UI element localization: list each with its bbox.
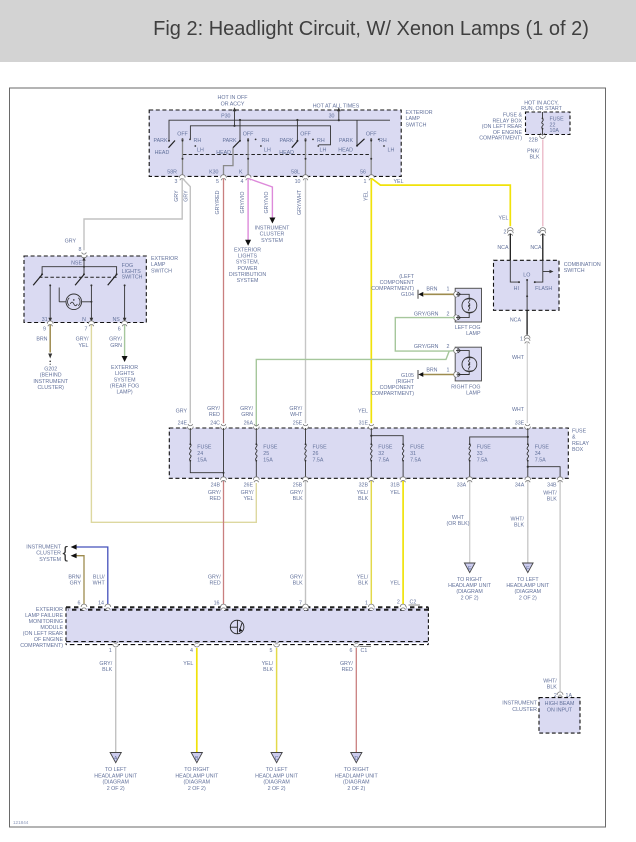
wire PNK/BLK fuse22 to combination switch pin 4 <box>527 140 543 227</box>
svg-text:9: 9 <box>43 327 46 333</box>
right fog lamp bulb <box>456 348 477 377</box>
svg-text:31: 31 <box>42 317 48 323</box>
svg-text:7.5A: 7.5A <box>313 458 324 464</box>
instrument cluster system arrows left <box>26 544 68 563</box>
svg-text:LAMP: LAMP <box>466 331 481 337</box>
svg-text:BLK: BLK <box>547 497 557 503</box>
svg-text:LIGHTS: LIGHTS <box>115 371 135 377</box>
svg-text:SYSTEM: SYSTEM <box>237 278 259 284</box>
svg-text:NCA: NCA <box>530 245 542 251</box>
module name text <box>20 607 63 649</box>
svg-text:HI: HI <box>514 286 519 292</box>
module top pin 1 <box>365 601 374 611</box>
svg-text:HOT IN OFF: HOT IN OFF <box>218 95 249 101</box>
svg-text:(DIAGRAM: (DIAGRAM <box>515 589 542 595</box>
terminal 31B <box>390 477 406 489</box>
svg-text:2 OF 2): 2 OF 2) <box>268 786 286 792</box>
svg-text:HEADLAMP UNIT: HEADLAMP UNIT <box>448 583 492 589</box>
svg-text:RH: RH <box>317 138 325 144</box>
svg-text:PARK: PARK <box>222 138 236 144</box>
svg-text:26: 26 <box>313 451 319 457</box>
ground G104 left component compartment <box>371 274 423 299</box>
wire WHT/BLK 34A to triangle F <box>510 481 527 563</box>
svg-text:RH: RH <box>379 138 387 144</box>
svg-text:24C: 24C <box>210 421 220 427</box>
svg-text:7.5A: 7.5A <box>535 458 546 464</box>
svg-text:GRY/VIO: GRY/VIO <box>264 192 270 214</box>
svg-text:N: N <box>82 317 86 323</box>
svg-text:15A: 15A <box>197 458 207 464</box>
svg-text:WHT/: WHT/ <box>510 517 524 523</box>
svg-text:LH: LH <box>197 147 204 153</box>
svg-text:TO LEFT: TO LEFT <box>517 577 539 583</box>
svg-text:34B: 34B <box>547 483 557 489</box>
svg-text:BRN: BRN <box>426 368 437 374</box>
fuse F33 7.5A feed branch <box>469 436 529 479</box>
svg-text:25B: 25B <box>293 483 303 489</box>
terminal 24B <box>211 477 227 489</box>
svg-text:GRY/: GRY/ <box>208 575 221 581</box>
svg-text:BLK: BLK <box>293 496 303 502</box>
svg-text:SWITCH: SWITCH <box>122 275 143 281</box>
svg-text:YEL: YEL <box>243 496 253 502</box>
svg-text:TO LEFT: TO LEFT <box>266 767 288 773</box>
svg-text:1: 1 <box>365 601 368 607</box>
ground G202 <box>33 354 68 392</box>
svg-text:16: 16 <box>214 601 220 607</box>
wire YEL/BLK module to triangle C <box>262 648 277 752</box>
svg-text:PARK: PARK <box>339 138 353 144</box>
svg-text:&: & <box>572 435 576 441</box>
connector triangle F <box>523 563 534 573</box>
wire YEL 31B to module pin2 <box>390 481 403 605</box>
svg-text:1: 1 <box>364 179 367 185</box>
svg-text:HEAD: HEAD <box>216 150 231 156</box>
combination switch box <box>494 260 560 310</box>
mechanical link dashed <box>183 154 370 156</box>
svg-text:(BEHIND: (BEHIND <box>40 373 62 379</box>
svg-text:RED: RED <box>342 667 353 673</box>
svg-text:SWITCH: SWITCH <box>564 268 585 274</box>
terminal 26E <box>244 477 260 489</box>
svg-text:{: { <box>63 544 69 562</box>
left fog lamp pin 2 connector <box>414 312 459 321</box>
svg-text:NCA: NCA <box>497 245 509 251</box>
svg-text:CLUSTER): CLUSTER) <box>37 385 64 391</box>
svg-text:4: 4 <box>190 648 193 654</box>
svg-text:PARK: PARK <box>153 138 167 144</box>
svg-text:RH: RH <box>262 138 270 144</box>
svg-text:GRY/: GRY/ <box>99 661 112 667</box>
connector pin 4 combination switch <box>537 228 546 237</box>
wire NCA below combination switch <box>510 310 527 335</box>
svg-text:GRY/: GRY/ <box>290 575 303 581</box>
wire GRY/VIO K to instrument cluster system <box>249 179 273 220</box>
label instrument cluster <box>502 701 537 713</box>
svg-text:3: 3 <box>175 179 178 185</box>
wire YEL/BLK 32B to module pin1 <box>357 481 372 605</box>
svg-text:33A: 33A <box>457 483 467 489</box>
svg-text:GRY/: GRY/ <box>340 661 353 667</box>
svg-text:5: 5 <box>270 648 273 654</box>
svg-text:OFF: OFF <box>243 131 254 137</box>
svg-text:INSTRUMENT: INSTRUMENT <box>26 545 61 551</box>
svg-text:YEL: YEL <box>363 191 369 201</box>
svg-text:7.5A: 7.5A <box>477 458 488 464</box>
svg-text:OR ACCY: OR ACCY <box>221 101 245 107</box>
svg-text:RELAY: RELAY <box>572 441 589 447</box>
svg-text:24: 24 <box>197 451 203 457</box>
svg-text:6: 6 <box>118 327 121 333</box>
svg-text:OFF: OFF <box>300 131 311 137</box>
fog lights switch box (exterior lamp switch) <box>24 256 146 323</box>
svg-text:SYSTEM: SYSTEM <box>39 557 61 563</box>
wire GRY/GRN net to fuse 26A <box>256 318 455 481</box>
svg-text:GRY/VIO: GRY/VIO <box>240 192 246 214</box>
svg-text:7.5A: 7.5A <box>410 458 421 464</box>
svg-text:GRY: GRY <box>65 239 77 245</box>
fog switch levers <box>33 275 116 286</box>
wire bus1 drop to PARK3 <box>296 119 298 141</box>
module top pin 6 <box>78 601 87 611</box>
svg-text:YEL: YEL <box>394 179 404 185</box>
svg-text:YEL: YEL <box>78 343 88 349</box>
svg-text:GRY/GRN: GRY/GRN <box>414 344 439 350</box>
svg-text:BLU/: BLU/ <box>93 575 105 581</box>
svg-text:EXTERIOR: EXTERIOR <box>151 256 178 262</box>
svg-text:(DIAGRAM: (DIAGRAM <box>102 780 129 786</box>
svg-text:33E: 33E <box>515 421 525 427</box>
svg-text:6: 6 <box>78 601 81 607</box>
svg-text:GRY/: GRY/ <box>240 406 253 412</box>
module top pin 16 <box>214 601 227 611</box>
svg-text:GRY/: GRY/ <box>207 406 220 412</box>
svg-text:RUN, OR START: RUN, OR START <box>521 106 562 112</box>
svg-text:RED: RED <box>209 412 220 418</box>
svg-text:HEADLAMP UNIT: HEADLAMP UNIT <box>506 583 550 589</box>
svg-text:GRY/: GRY/ <box>76 337 89 343</box>
svg-text:LH: LH <box>388 147 395 153</box>
svg-text:B: B <box>195 756 199 762</box>
terminal K pin 4 <box>239 170 251 186</box>
svg-text:HOT AT ALL TIMES: HOT AT ALL TIMES <box>313 104 360 110</box>
wire bus1 drop to HEAD4 <box>356 120 358 146</box>
svg-text:LH: LH <box>264 147 271 153</box>
module bottom pin 4 <box>190 642 200 655</box>
terminal NSE pin 8 <box>65 239 87 267</box>
terminal 24C <box>210 421 226 430</box>
fuse F31 7.5A feed branch <box>370 435 424 479</box>
svg-text:FUSE: FUSE <box>378 445 393 451</box>
svg-text:G202: G202 <box>44 367 57 373</box>
wire YEL 56 branch to combination switch <box>372 179 511 227</box>
svg-text:1: 1 <box>520 337 523 343</box>
high beam on input box <box>539 698 580 734</box>
svg-text:FUSE: FUSE <box>410 445 425 451</box>
svg-text:WHT: WHT <box>512 355 525 361</box>
svg-text:31E: 31E <box>359 421 369 427</box>
left fog lamp bulb <box>456 292 477 320</box>
terminal 25B <box>293 477 309 489</box>
terminal N pin 7 <box>82 317 94 332</box>
svg-text:NCA: NCA <box>510 318 522 324</box>
svg-text:YEL: YEL <box>498 216 508 222</box>
illumination lamp in fog switch <box>59 288 92 310</box>
svg-text:CLUSTER: CLUSTER <box>260 232 285 238</box>
wire GRY pin3 to fog switch NSE <box>84 179 182 251</box>
right fog lamp pin 1 connector <box>426 368 459 378</box>
svg-text:GRY/: GRY/ <box>109 337 122 343</box>
svg-text:10: 10 <box>295 179 301 185</box>
svg-text:26E: 26E <box>244 483 254 489</box>
fuse and relay box main <box>169 428 568 478</box>
svg-text:K30: K30 <box>209 170 218 176</box>
svg-text:(DIAGRAM: (DIAGRAM <box>184 780 211 786</box>
svg-text:1: 1 <box>447 287 450 293</box>
svg-text:GRN: GRN <box>110 343 122 349</box>
wire K30 pole jog <box>224 148 234 177</box>
svg-text:FUSE: FUSE <box>572 429 587 435</box>
svg-text:LAMP: LAMP <box>151 262 166 268</box>
svg-text:INSTRUMENT: INSTRUMENT <box>502 701 537 707</box>
right fog lamp box <box>455 347 481 381</box>
svg-text:Fig 2: Headlight Circuit, W/ X: Fig 2: Headlight Circuit, W/ Xenon Lamps… <box>153 18 589 40</box>
svg-text:2 OF 2): 2 OF 2) <box>107 786 125 792</box>
exterior lamp failure monitoring module box <box>66 608 428 643</box>
svg-text:YEL/: YEL/ <box>357 575 369 581</box>
svg-text:8: 8 <box>79 247 82 253</box>
wire labels above fuse box <box>176 406 368 418</box>
svg-text:58L: 58L <box>291 170 300 176</box>
svg-text:2 OF 2): 2 OF 2) <box>347 786 365 792</box>
svg-text:TO RIGHT: TO RIGHT <box>184 767 210 773</box>
wire fog switch feed bus <box>42 267 117 274</box>
svg-text:GRY: GRY <box>174 190 180 202</box>
svg-text:6: 6 <box>350 648 353 654</box>
svg-text:2: 2 <box>504 230 507 236</box>
module top pin 2 connector C2 <box>397 600 420 611</box>
svg-text:HEAD: HEAD <box>155 150 170 156</box>
wire BRN to left fog lamp pin1 <box>423 287 454 295</box>
svg-text:OFF: OFF <box>177 131 188 137</box>
svg-text:BLK: BLK <box>263 667 273 673</box>
svg-text:HEADLAMP UNIT: HEADLAMP UNIT <box>255 773 299 779</box>
fuse F25 15A <box>255 428 277 478</box>
terminal NS pin 6 <box>112 317 127 332</box>
terminal 32B <box>359 477 375 489</box>
module bottom pin 5 <box>270 642 280 655</box>
svg-text:PARK: PARK <box>279 138 293 144</box>
svg-text:7: 7 <box>85 327 88 333</box>
svg-text:121844: 121844 <box>13 820 29 825</box>
svg-text:GRY: GRY <box>184 190 190 202</box>
svg-text:1: 1 <box>447 368 450 374</box>
node hot in accy run or start <box>521 101 562 112</box>
svg-text:BLK: BLK <box>529 155 539 161</box>
svg-text:EXTERIOR: EXTERIOR <box>111 365 138 371</box>
svg-text:G104: G104 <box>401 292 414 298</box>
svg-text:WHT/: WHT/ <box>543 491 557 497</box>
svg-text:CLUSTER: CLUSTER <box>512 707 537 713</box>
exterior lamp switch S1 box <box>149 110 401 176</box>
svg-text:INSTRUMENT: INSTRUMENT <box>255 226 290 232</box>
terminal 33E <box>515 421 531 430</box>
node 30 hot at all times <box>313 104 360 122</box>
svg-text:2: 2 <box>397 600 400 606</box>
fog switch mechanical dashed link <box>39 276 118 278</box>
svg-text:HEAD: HEAD <box>279 150 294 156</box>
svg-text:EXTERIOR: EXTERIOR <box>406 110 433 116</box>
svg-text:56: 56 <box>360 170 366 176</box>
terminal K30 pin 5 <box>209 170 226 186</box>
wire GRY/WHT 58L to fuse 25E <box>305 179 307 424</box>
svg-text:C: C <box>275 756 279 762</box>
svg-text:WHT: WHT <box>93 581 106 587</box>
svg-text:5: 5 <box>216 179 219 185</box>
svg-text:(DIAGRAM: (DIAGRAM <box>456 589 483 595</box>
svg-text:OFF: OFF <box>366 131 377 137</box>
svg-text:(DIAGRAM: (DIAGRAM <box>263 780 290 786</box>
svg-text:GRY/: GRY/ <box>208 490 221 496</box>
svg-text:BLK: BLK <box>102 667 112 673</box>
svg-text:SYSTEM: SYSTEM <box>114 377 136 383</box>
svg-text:2 OF 2): 2 OF 2) <box>188 786 206 792</box>
wire BRN to ground G105 <box>423 374 454 376</box>
svg-text:LAMP): LAMP) <box>116 390 132 396</box>
terminal 31 pin 9 <box>42 317 53 332</box>
module top pin 7 <box>299 601 308 611</box>
svg-text:NSE: NSE <box>71 261 82 267</box>
svg-text:YEL: YEL <box>390 490 400 496</box>
svg-text:BRN: BRN <box>36 337 47 343</box>
terminal 24E <box>178 421 194 430</box>
connector triangle E <box>464 563 475 573</box>
header bar <box>0 0 636 62</box>
svg-text:33: 33 <box>477 451 483 457</box>
svg-text:TO RIGHT: TO RIGHT <box>344 767 370 773</box>
svg-text:COMPARTMENT): COMPARTMENT) <box>479 136 522 142</box>
wire BRN pin9 to ground G202 <box>36 325 50 353</box>
combination switch internals HI LO FLASH <box>510 260 553 310</box>
fuse 22 box (fuse and relay box) <box>526 112 571 135</box>
svg-text:GRY/: GRY/ <box>290 490 303 496</box>
svg-text:31: 31 <box>410 451 416 457</box>
wire NCA pin4 to box <box>530 234 542 261</box>
terminal 56 pin 1 <box>360 170 374 186</box>
connector pin 2 combination switch <box>504 228 514 237</box>
svg-text:YEL: YEL <box>358 409 368 415</box>
svg-text:31B: 31B <box>390 483 400 489</box>
left fog lamp pin 1 connector <box>454 291 459 297</box>
wire BRN/GRY to module pin6 <box>68 553 84 605</box>
wire GRY/BLK module to triangle A <box>99 648 115 752</box>
fuse F24 15A <box>189 428 223 473</box>
svg-text:BOX: BOX <box>572 447 584 453</box>
connector 2 / 1A to instrument cluster <box>554 692 576 699</box>
right fog lamp pin 2 labels <box>414 344 450 350</box>
svg-text:FUSE: FUSE <box>477 445 492 451</box>
svg-text:P30: P30 <box>221 114 230 120</box>
svg-text:GRY/: GRY/ <box>289 406 302 412</box>
wire YEL 56 to fuse 31E <box>370 179 372 424</box>
wire NCA pin2 to box <box>497 234 510 261</box>
svg-text:LAMP: LAMP <box>406 116 421 122</box>
module top pin 14 <box>98 601 111 611</box>
wire WHT (OR BLK) 33A to triangle E <box>447 481 470 563</box>
svg-text:A: A <box>114 756 118 762</box>
svg-text:25E: 25E <box>293 421 303 427</box>
svg-text:(REAR FOG: (REAR FOG <box>110 384 139 390</box>
svg-text:FUSE: FUSE <box>535 445 550 451</box>
svg-text:58R: 58R <box>167 170 177 176</box>
svg-text:30: 30 <box>329 114 335 120</box>
svg-text:LH: LH <box>320 147 327 153</box>
svg-text:14: 14 <box>98 601 104 607</box>
svg-text:WHT: WHT <box>512 407 525 413</box>
svg-text:HIGH BEAM: HIGH BEAM <box>545 701 575 707</box>
svg-text:1: 1 <box>109 648 112 654</box>
module bottom pin 1 <box>109 642 119 655</box>
arrow to instrument cluster system <box>269 218 275 224</box>
svg-text:BLK: BLK <box>547 685 557 691</box>
svg-text:7: 7 <box>299 601 302 607</box>
svg-text:ON INPUT: ON INPUT <box>547 708 573 714</box>
svg-text:34A: 34A <box>515 483 525 489</box>
svg-text:PNK/: PNK/ <box>527 149 540 155</box>
connector triangle B <box>191 753 202 763</box>
fog switch output contacts and wires to pins <box>48 284 52 322</box>
connector triangle C <box>271 753 282 763</box>
svg-text:GRY/WHT: GRY/WHT <box>297 189 303 215</box>
fog switch contact dots <box>41 273 118 275</box>
svg-text:SWITCH: SWITCH <box>151 268 172 274</box>
wire GRY/RED K30 to fuse 24C <box>223 179 225 424</box>
terminal 34A <box>515 477 531 489</box>
connector triangle A <box>110 753 121 763</box>
terminal 34B <box>547 477 563 489</box>
svg-text:RIGHT FOG: RIGHT FOG <box>451 384 480 390</box>
fuse F22 symbol <box>542 112 564 136</box>
fuse F26 7.5A <box>305 428 327 478</box>
switch pole S2 <box>216 131 271 177</box>
terminal 31E <box>359 421 375 430</box>
svg-text:BRN: BRN <box>426 287 437 293</box>
svg-text:POWER: POWER <box>237 266 257 272</box>
svg-text:YEL: YEL <box>390 581 400 587</box>
label GRY/YEL at 26E <box>241 490 254 502</box>
svg-text:COMPARTMENT): COMPARTMENT) <box>20 643 63 649</box>
terminal 22B <box>529 133 546 144</box>
svg-text:EXTERIOR: EXTERIOR <box>234 248 261 254</box>
svg-text:LAMP: LAMP <box>466 391 481 397</box>
svg-text:WHT: WHT <box>290 412 303 418</box>
wire bus2 inside switch <box>190 126 330 145</box>
svg-text:(OR BLK): (OR BLK) <box>447 521 470 527</box>
svg-text:BRN/: BRN/ <box>68 575 81 581</box>
svg-text:25: 25 <box>263 451 269 457</box>
svg-text:10A: 10A <box>550 128 560 134</box>
fuse F34 branch to 34B <box>527 466 560 479</box>
svg-text:RH: RH <box>194 138 202 144</box>
arrow to exterior lights system rear fog lamp <box>110 356 139 396</box>
svg-text:24E: 24E <box>178 421 188 427</box>
switch pole S3 <box>279 131 326 177</box>
svg-text:WHT: WHT <box>452 515 465 521</box>
svg-text:HEAD: HEAD <box>338 148 353 154</box>
svg-text:YEL/: YEL/ <box>357 490 369 496</box>
svg-text:NS: NS <box>112 317 120 323</box>
svg-text:INSTRUMENT: INSTRUMENT <box>33 379 68 385</box>
